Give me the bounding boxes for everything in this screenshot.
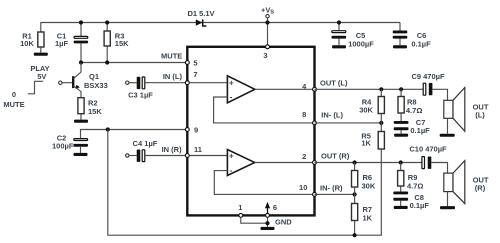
wire IN-(L) row (315, 122, 382, 124)
resistor R2 (78, 98, 84, 114)
pin 5 (185, 61, 189, 65)
svg-text:R6: R6 (363, 173, 373, 182)
wire top supply rail (41, 23, 400, 33)
svg-text:10K: 10K (20, 39, 34, 48)
svg-text:15K: 15K (88, 107, 102, 116)
svg-text:4.7Ω: 4.7Ω (407, 182, 423, 191)
svg-text:GND: GND (275, 218, 292, 227)
junction gnd (265, 221, 269, 225)
svg-text:1K: 1K (361, 138, 371, 147)
svg-text:4.7Ω: 4.7Ω (406, 106, 422, 115)
svg-text:5: 5 (193, 59, 197, 68)
junction dots OUT(L) (379, 87, 383, 91)
svg-text:1µF: 1µF (55, 39, 68, 48)
wire +Vs to pin 3 (267, 18, 269, 47)
capacitor C6 (393, 31, 431, 49)
wire C5 branch (338, 23, 340, 31)
svg-text:(L): (L) (475, 110, 485, 119)
wire OUT(L) row (315, 88, 424, 90)
pin 6 internal arrow (267, 207, 269, 215)
resistor R3 (104, 31, 110, 46)
wire C6 to ground (399, 39, 401, 46)
svg-text:3: 3 (263, 51, 267, 60)
wire C2 line to pin 9 (81, 130, 188, 139)
svg-text:IN- (R): IN- (R) (320, 183, 343, 192)
wire R3 bottom (106, 46, 108, 63)
svg-text:8: 8 (302, 110, 306, 119)
svg-text:BSX33: BSX33 (84, 81, 108, 90)
svg-text:+: + (229, 79, 234, 88)
junction dots OUT(R)/IN-(R) (353, 160, 357, 164)
diode D1 zener 5.1V (187, 9, 214, 26)
junction dots mute line (79, 60, 83, 64)
svg-text:5V: 5V (37, 72, 46, 81)
svg-text:MUTE: MUTE (3, 100, 24, 109)
svg-text:IN (L): IN (L) (163, 72, 183, 81)
svg-text:1: 1 (238, 203, 242, 212)
svg-text:-: - (230, 93, 233, 102)
svg-text:30K: 30K (362, 182, 376, 191)
speaker OUT(R) (440, 161, 489, 210)
capacitor C8 (393, 192, 429, 211)
pin 8 (313, 121, 317, 125)
wire R2 to ground (80, 114, 82, 120)
speaker OUT(L) (440, 88, 489, 137)
pin 1 (239, 213, 243, 217)
resistor R9 (400, 163, 402, 171)
svg-text:9: 9 (194, 126, 198, 135)
capacitor C4 (126, 139, 188, 162)
transistor Q1 BSX33 (59, 63, 108, 98)
wire IN-(R) row (315, 193, 355, 195)
IC U1 outline (187, 47, 314, 216)
wire OUT(R) row (315, 162, 422, 164)
capacitor C7 (394, 118, 430, 137)
wire C6 branch (399, 23, 401, 31)
ground R2 (74, 120, 88, 123)
wire C1 branch (80, 23, 82, 37)
pin 4 (313, 87, 317, 91)
resistor R8 (400, 89, 402, 96)
ground GND (261, 227, 275, 230)
junction dot bottom rail (353, 233, 357, 237)
svg-text:OUT (R): OUT (R) (321, 152, 350, 161)
svg-text:C9 470µF: C9 470µF (411, 72, 445, 81)
svg-text:0.1µF: 0.1µF (411, 40, 431, 49)
svg-text:IN- (L): IN- (L) (321, 111, 343, 120)
capacitor C10 (409, 145, 447, 174)
junction C2 branch (106, 127, 110, 131)
op-amp A1 (left channel) (190, 76, 315, 123)
svg-text:30K: 30K (359, 105, 373, 114)
wire ground return left (108, 130, 382, 236)
svg-text:C10 470µF: C10 470µF (409, 145, 447, 154)
pin 7 (185, 81, 189, 85)
resistor R5 (380, 123, 382, 132)
svg-text:MUTE: MUTE (161, 51, 182, 60)
svg-text:D1 5.1V: D1 5.1V (187, 9, 214, 18)
svg-text:(R): (R) (475, 184, 486, 193)
op-amp A2 (right channel) (190, 150, 315, 195)
wire pin1 to gnd (241, 218, 268, 223)
svg-text:1K: 1K (363, 213, 373, 222)
pin 9 (185, 128, 189, 132)
wire C5 to ground (338, 39, 340, 46)
pin 6 (266, 213, 270, 217)
svg-text:+V: +V (261, 5, 270, 14)
capacitor C9 (411, 72, 447, 100)
pin 3 (266, 45, 270, 49)
resistor R1 (38, 32, 44, 47)
svg-text:7: 7 (193, 70, 197, 79)
pin 10 (313, 192, 317, 196)
resistor R7 (354, 194, 356, 203)
svg-text:R9: R9 (408, 173, 418, 182)
junction dots top rail (79, 20, 83, 24)
resistor R6 (354, 163, 356, 171)
wire MUTE line to pin 5 (81, 62, 187, 64)
svg-text:OUT (L): OUT (L) (320, 79, 348, 88)
svg-text:0: 0 (12, 90, 16, 99)
svg-text:0.1µF: 0.1µF (410, 201, 430, 210)
svg-text:S: S (270, 10, 274, 16)
svg-text:C4 1µF: C4 1µF (133, 139, 158, 148)
capacitor C5 (332, 31, 375, 49)
wire C1 to mute line (80, 43, 82, 62)
wire R3 top (106, 23, 108, 32)
svg-text:2: 2 (302, 152, 306, 161)
resistor R4 (380, 89, 382, 96)
node +Vs terminal (266, 15, 269, 18)
svg-text:+: + (229, 151, 234, 160)
wire R1 to ground (40, 47, 42, 53)
svg-text:100µF: 100µF (52, 141, 74, 150)
svg-text:6: 6 (273, 203, 277, 212)
svg-text:C3 1µF: C3 1µF (128, 90, 153, 99)
wire pin6 to gnd (267, 218, 269, 227)
capacitor C2 (52, 134, 88, 156)
pin 2 (313, 161, 317, 165)
svg-text:11: 11 (194, 145, 202, 154)
svg-text:1000µF: 1000µF (348, 40, 374, 49)
svg-text:10: 10 (299, 183, 307, 192)
svg-text:0.1µF: 0.1µF (410, 126, 430, 135)
pin 11 (185, 154, 189, 158)
ground R1 (34, 53, 48, 56)
svg-text:15K: 15K (115, 39, 129, 48)
svg-text:-: - (230, 166, 233, 175)
node PLAY/MUTE step input (3, 64, 49, 109)
capacitor C1 (74, 36, 88, 38)
capacitor C3 (126, 77, 188, 100)
svg-text:IN (R): IN (R) (162, 145, 182, 154)
